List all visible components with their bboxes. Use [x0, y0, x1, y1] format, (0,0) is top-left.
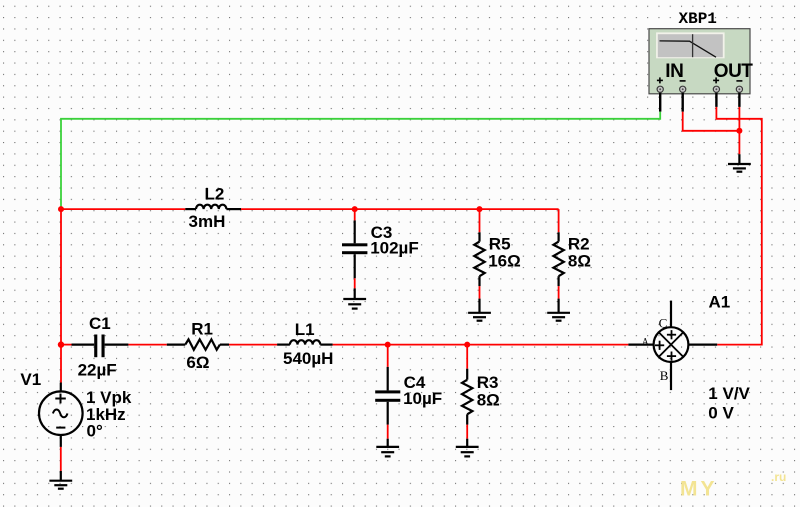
svg-text:0 V: 0 V	[708, 404, 734, 423]
svg-text:10µF: 10µF	[403, 389, 442, 408]
wire L2 row left	[61, 208, 185, 210]
svg-text:22µF: 22µF	[78, 361, 117, 380]
svg-text:6Ω: 6Ω	[186, 353, 209, 372]
resistor R1	[167, 339, 229, 349]
XBP1 screen response curve	[660, 41, 717, 57]
svg-text:L2: L2	[205, 185, 225, 204]
svg-text:C1: C1	[89, 314, 111, 333]
wire R3 lower	[466, 425, 468, 439]
svg-text:8Ω: 8Ω	[477, 390, 500, 409]
wire left vertical	[60, 209, 62, 345]
resistor R3	[462, 369, 472, 425]
XBP1 terminal pin stubs	[660, 92, 739, 112]
svg-text:MY: MY	[680, 478, 718, 501]
svg-text:L1: L1	[295, 320, 315, 339]
svg-text:OUT: OUT	[714, 61, 754, 82]
node L2-left junction	[58, 206, 64, 212]
inductor L2	[185, 205, 241, 209]
XBP1 terminals IN+ IN- OUT+ OUT-	[657, 86, 742, 92]
ground under C3	[343, 288, 366, 308]
wire C3 drop	[354, 209, 356, 220]
svg-text:1 V/V: 1 V/V	[708, 384, 750, 403]
ground under R3	[456, 439, 479, 457]
source V1	[39, 383, 83, 447]
instrument XBP1 bode plotter body	[649, 29, 750, 94]
wire: green net IN+ horizontal/vertical	[61, 112, 660, 210]
capacitor C3	[354, 220, 356, 278]
svg-text:IN: IN	[665, 61, 683, 82]
svg-text:0°: 0°	[87, 421, 103, 440]
inductor L1	[277, 340, 333, 344]
svg-text:R3: R3	[477, 373, 499, 392]
wire L2 row right	[241, 208, 559, 210]
wire R5 lower	[479, 286, 481, 299]
wire C3 lower	[354, 278, 356, 288]
svg-text:540µH: 540µH	[283, 349, 333, 368]
capacitor C1	[72, 344, 129, 346]
svg-text:V1: V1	[20, 370, 41, 389]
wire R2 drop	[558, 209, 560, 232]
node C1 junction	[58, 341, 64, 347]
wire R5 drop	[479, 209, 481, 232]
svg-text:R1: R1	[191, 320, 213, 339]
node C3 junction	[352, 206, 358, 212]
wire main row segs	[61, 344, 72, 346]
svg-text:A: A	[642, 336, 649, 346]
wire to V1	[60, 345, 62, 383]
capacitor C4	[387, 367, 389, 425]
ground under R5	[468, 299, 491, 321]
XBP1 screen cursor line	[692, 34, 694, 57]
ground under OUT-	[728, 154, 751, 172]
XBP1 terminal polarity marks	[657, 77, 743, 83]
svg-text:.ru: .ru	[771, 470, 786, 484]
svg-text:102µF: 102µF	[370, 238, 419, 257]
resistor R5	[474, 232, 484, 286]
svg-text:A1: A1	[709, 293, 731, 312]
node R5 junction	[477, 206, 483, 212]
wire C4 lower	[387, 425, 389, 439]
wire IN-	[683, 112, 740, 131]
resistor R2	[553, 232, 563, 286]
svg-text:3mH: 3mH	[189, 212, 226, 231]
svg-text:B: B	[660, 368, 669, 383]
ground under V1	[49, 471, 72, 489]
svg-text:XBP1: XBP1	[679, 10, 717, 28]
wire C4 drop	[387, 345, 389, 367]
ground under R2	[547, 299, 570, 321]
node R3 junction	[464, 342, 470, 348]
svg-text:C: C	[659, 316, 668, 331]
svg-text:16Ω: 16Ω	[488, 251, 521, 270]
wire: red nets	[61, 107, 762, 471]
wire R3 drop	[466, 345, 468, 369]
wire R2 lower	[558, 286, 560, 299]
wire A1 out to OUT+	[716, 107, 761, 345]
XBP1 screen	[656, 32, 725, 58]
wire V1 lower	[60, 447, 62, 471]
ground under C4	[376, 439, 399, 457]
wire OUT- to ground	[738, 107, 740, 154]
node OUT- junction	[736, 128, 742, 134]
svg-text:8Ω: 8Ω	[568, 251, 591, 270]
node C4 junction	[385, 342, 391, 348]
op-amp gain block A1	[628, 301, 717, 391]
